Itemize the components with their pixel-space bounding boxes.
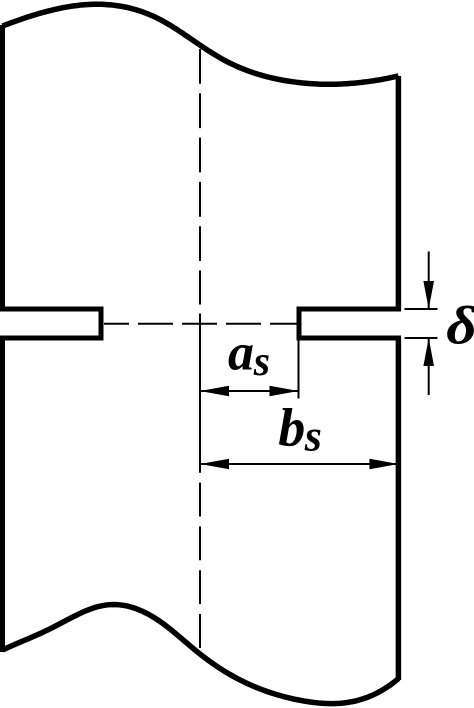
plate left edge upper segment <box>0 25 5 310</box>
svg-text:δ: δ <box>446 296 474 356</box>
extension line for delta lower <box>405 337 438 339</box>
svg-text:b: b <box>278 398 305 458</box>
plate right edge upper segment <box>396 76 402 310</box>
dimension line b_s <box>200 463 398 465</box>
vertical dashed centerline upper part <box>199 49 201 305</box>
label delta <box>446 296 474 356</box>
arrowhead b_s right <box>369 459 398 470</box>
label b_s <box>278 398 322 461</box>
plate right edge lower segment <box>396 337 402 680</box>
vertical centerline solid middle (extension for dimensions) <box>199 314 201 473</box>
arrowhead b_s left <box>200 459 229 470</box>
delta dimension upper line with down arrow <box>428 252 430 310</box>
label a_s <box>228 324 270 385</box>
vertical dashed centerline lower part <box>199 483 201 651</box>
dimension line a_s <box>200 390 299 392</box>
plate left edge lower segment <box>0 337 5 652</box>
svg-text:s: s <box>253 339 270 385</box>
arrowhead delta up <box>423 338 434 366</box>
arrowhead a_s left <box>200 386 229 397</box>
left slot (notch) outline <box>0 309 101 338</box>
plate bottom wavy broken edge <box>3 605 399 704</box>
delta dimension lower line with up arrow <box>428 338 430 395</box>
extension line for delta upper <box>405 308 438 310</box>
right slot (notch) outline <box>299 309 401 338</box>
arrowhead a_s right <box>270 386 299 397</box>
svg-text:s: s <box>304 412 322 461</box>
svg-text:a: a <box>228 324 254 381</box>
extension line from right slot tip down to a_s dimension <box>298 340 300 399</box>
plate top wavy broken edge <box>3 4 399 84</box>
arrowhead delta down <box>423 281 434 309</box>
horizontal dashed centerline between slots <box>104 323 297 325</box>
